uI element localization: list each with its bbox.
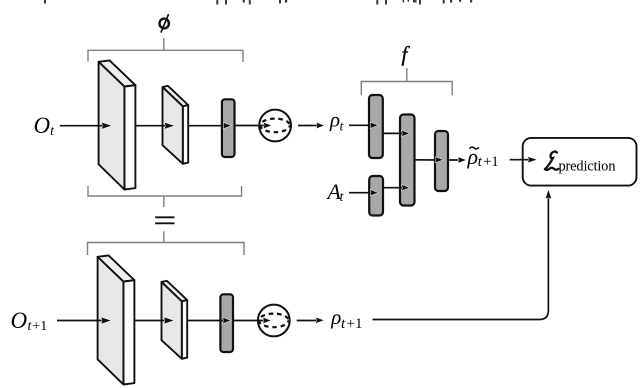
wire bar D to rho-tilde xyxy=(448,159,461,161)
arrowhead into bar C (from A) xyxy=(402,130,411,136)
label rho-tilde_{t+1} xyxy=(469,147,479,149)
arrowhead into bar A xyxy=(370,122,379,128)
wire rho_t to bar A xyxy=(349,124,373,126)
arrowhead up into loss box xyxy=(545,189,551,199)
conv slab 1 (top encoder) xyxy=(99,60,136,189)
latent vector bar (bottom encoder) xyxy=(220,294,233,352)
wire bar C to bar D xyxy=(415,159,439,161)
wire sphere to rho_{t+1} xyxy=(297,320,319,322)
svg-text:ρ: ρ xyxy=(329,108,340,132)
wire A_t to bar B xyxy=(349,192,373,194)
f output bar D xyxy=(435,131,448,191)
svg-text:prediction: prediction xyxy=(559,159,617,175)
conv slab 2 (top encoder) xyxy=(163,86,189,164)
bracket under top encoder xyxy=(88,186,242,207)
label phi (straight phi drawn) xyxy=(160,14,169,32)
svg-text:O: O xyxy=(11,308,28,333)
sphere (normalized latent, top) xyxy=(259,110,291,142)
svg-text:Ot: Ot xyxy=(34,113,56,139)
cropped equation fragments at top xyxy=(44,0,472,5)
svg-text:t: t xyxy=(340,120,345,135)
svg-text:t: t xyxy=(340,190,345,205)
arrowhead into bar xyxy=(223,122,232,128)
arrowhead into conv2 xyxy=(164,122,175,129)
svg-text:t: t xyxy=(341,316,346,332)
wire bar B to bar C xyxy=(383,187,405,189)
svg-text:+1: +1 xyxy=(347,316,363,332)
arrowhead at rho-tilde xyxy=(458,157,467,163)
arrowhead into bar (bottom) xyxy=(223,317,232,323)
arrowhead into bar C (from B) xyxy=(402,185,411,191)
arrowhead into conv1 xyxy=(102,122,113,129)
f input bar A (rho_t) xyxy=(369,95,383,158)
arrowhead into conv2b xyxy=(164,317,175,324)
bracket f xyxy=(361,68,452,95)
conv slab 1 (bottom encoder) xyxy=(98,255,135,384)
f input bar B (A_t) xyxy=(369,176,383,216)
wire conv1b to conv2b xyxy=(135,320,167,322)
arrowhead into conv1b xyxy=(101,317,112,324)
sphere equator dashed xyxy=(260,119,290,133)
arrowhead at rho_{t+1} xyxy=(316,317,325,323)
svg-text:ρ: ρ xyxy=(467,144,479,169)
svg-text:t: t xyxy=(478,154,483,170)
f hidden bar C xyxy=(400,115,415,206)
arrowhead at rho_t xyxy=(316,122,325,128)
label L_prediction xyxy=(545,152,559,170)
wire conv1 to conv2 xyxy=(136,125,167,127)
wire rho-tilde to loss box xyxy=(510,159,532,161)
svg-text:f: f xyxy=(402,42,411,66)
arrowhead into bar D xyxy=(435,157,444,163)
wire O_t to conv1 xyxy=(60,125,104,127)
latent vector bar (top encoder) xyxy=(222,99,235,157)
svg-text:ρ: ρ xyxy=(330,305,341,329)
arrowhead into loss box xyxy=(528,157,538,163)
conv slab 2 (bottom encoder) xyxy=(162,281,188,359)
arrowhead into sphere (bottom) xyxy=(263,317,272,323)
svg-text:+1: +1 xyxy=(483,154,498,170)
wire rho_{t+1} to loss box (elbow) xyxy=(373,197,549,320)
wire O_{t+1} to conv1b xyxy=(57,320,104,322)
wire bar A to bar C xyxy=(383,132,405,134)
wire conv2 to vector bar xyxy=(189,125,227,127)
arrowhead into sphere xyxy=(263,122,272,128)
wire bar to sphere xyxy=(235,125,267,127)
svg-text:+1: +1 xyxy=(32,319,47,334)
bracket over bottom encoder xyxy=(88,231,245,255)
bracket phi (over top encoder) xyxy=(88,38,243,62)
arrowhead into bar B xyxy=(370,190,379,196)
wire conv2b to bar xyxy=(188,320,226,322)
loss box L_prediction xyxy=(523,138,637,186)
sphere (bottom) xyxy=(258,305,290,337)
equals sign xyxy=(155,217,174,223)
wire sphere to rho_t xyxy=(298,125,319,127)
wire bar to sphere (bottom) xyxy=(233,320,266,322)
